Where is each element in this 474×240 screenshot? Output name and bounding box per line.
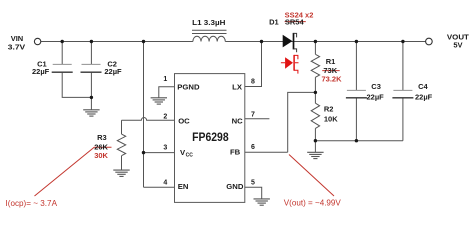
svg-text:3.7V: 3.7V: [8, 42, 25, 51]
svg-text:I(ocp)= ~ 3.7A: I(ocp)= ~ 3.7A: [6, 199, 58, 208]
svg-text:22µF: 22µF: [415, 92, 433, 101]
svg-text:C4: C4: [418, 82, 428, 91]
svg-text:V(out) = ~4.99V: V(out) = ~4.99V: [284, 198, 342, 207]
svg-text:22µF: 22µF: [104, 67, 122, 76]
svg-text:7: 7: [251, 112, 255, 119]
svg-text:CC: CC: [186, 153, 194, 159]
svg-text:D1: D1: [269, 18, 279, 27]
svg-text:LX: LX: [232, 83, 243, 92]
svg-text:EN: EN: [178, 182, 189, 191]
svg-text:PGND: PGND: [177, 83, 200, 92]
svg-text:R3: R3: [97, 133, 107, 142]
svg-text:R2: R2: [324, 105, 334, 114]
svg-text:10K: 10K: [324, 114, 338, 123]
svg-text:8: 8: [251, 78, 255, 85]
svg-text:L1 3.3µH: L1 3.3µH: [192, 18, 225, 27]
svg-text:R1: R1: [326, 57, 336, 66]
svg-text:5: 5: [251, 179, 255, 186]
svg-text:SS24 x2: SS24 x2: [285, 11, 314, 20]
svg-text:1: 1: [163, 76, 167, 83]
svg-text:4: 4: [163, 180, 167, 187]
svg-text:26K: 26K: [94, 142, 108, 151]
svg-text:5V: 5V: [453, 41, 462, 50]
svg-text:OC: OC: [178, 116, 190, 125]
svg-text:30K: 30K: [94, 151, 108, 160]
svg-text:22µF: 22µF: [367, 92, 385, 101]
svg-text:FP6298: FP6298: [192, 130, 229, 144]
svg-text:NC: NC: [232, 116, 244, 125]
svg-text:FB: FB: [230, 148, 241, 157]
svg-text:73.2K: 73.2K: [322, 74, 343, 83]
svg-text:22µF: 22µF: [32, 67, 50, 76]
svg-text:C3: C3: [371, 82, 381, 91]
svg-text:2: 2: [163, 113, 167, 120]
svg-text:6: 6: [251, 144, 255, 151]
svg-text:GND: GND: [226, 182, 244, 191]
svg-text:3: 3: [163, 145, 167, 152]
